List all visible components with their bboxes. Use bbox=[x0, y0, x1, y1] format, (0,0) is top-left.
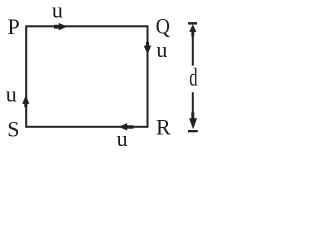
svg-text:u: u bbox=[52, 0, 63, 23]
svg-text:P: P bbox=[8, 14, 20, 39]
square loop PQRS bbox=[26, 26, 147, 127]
svg-text:Q: Q bbox=[156, 13, 170, 38]
svg-text:u: u bbox=[156, 37, 167, 62]
svg-text:R: R bbox=[156, 115, 171, 140]
svg-text:S: S bbox=[7, 116, 19, 141]
svg-text:u: u bbox=[117, 126, 128, 149]
arrow u on side QR (downward) bbox=[144, 42, 152, 54]
arrow u on side PQ (rightward) bbox=[54, 23, 67, 31]
arrow u on side RS (leftward) bbox=[119, 123, 134, 131]
svg-text:u: u bbox=[6, 81, 17, 106]
svg-text:d: d bbox=[189, 64, 198, 91]
dimension line d (right side) bbox=[188, 22, 198, 132]
arrow u on side SP (upward) bbox=[22, 95, 29, 107]
